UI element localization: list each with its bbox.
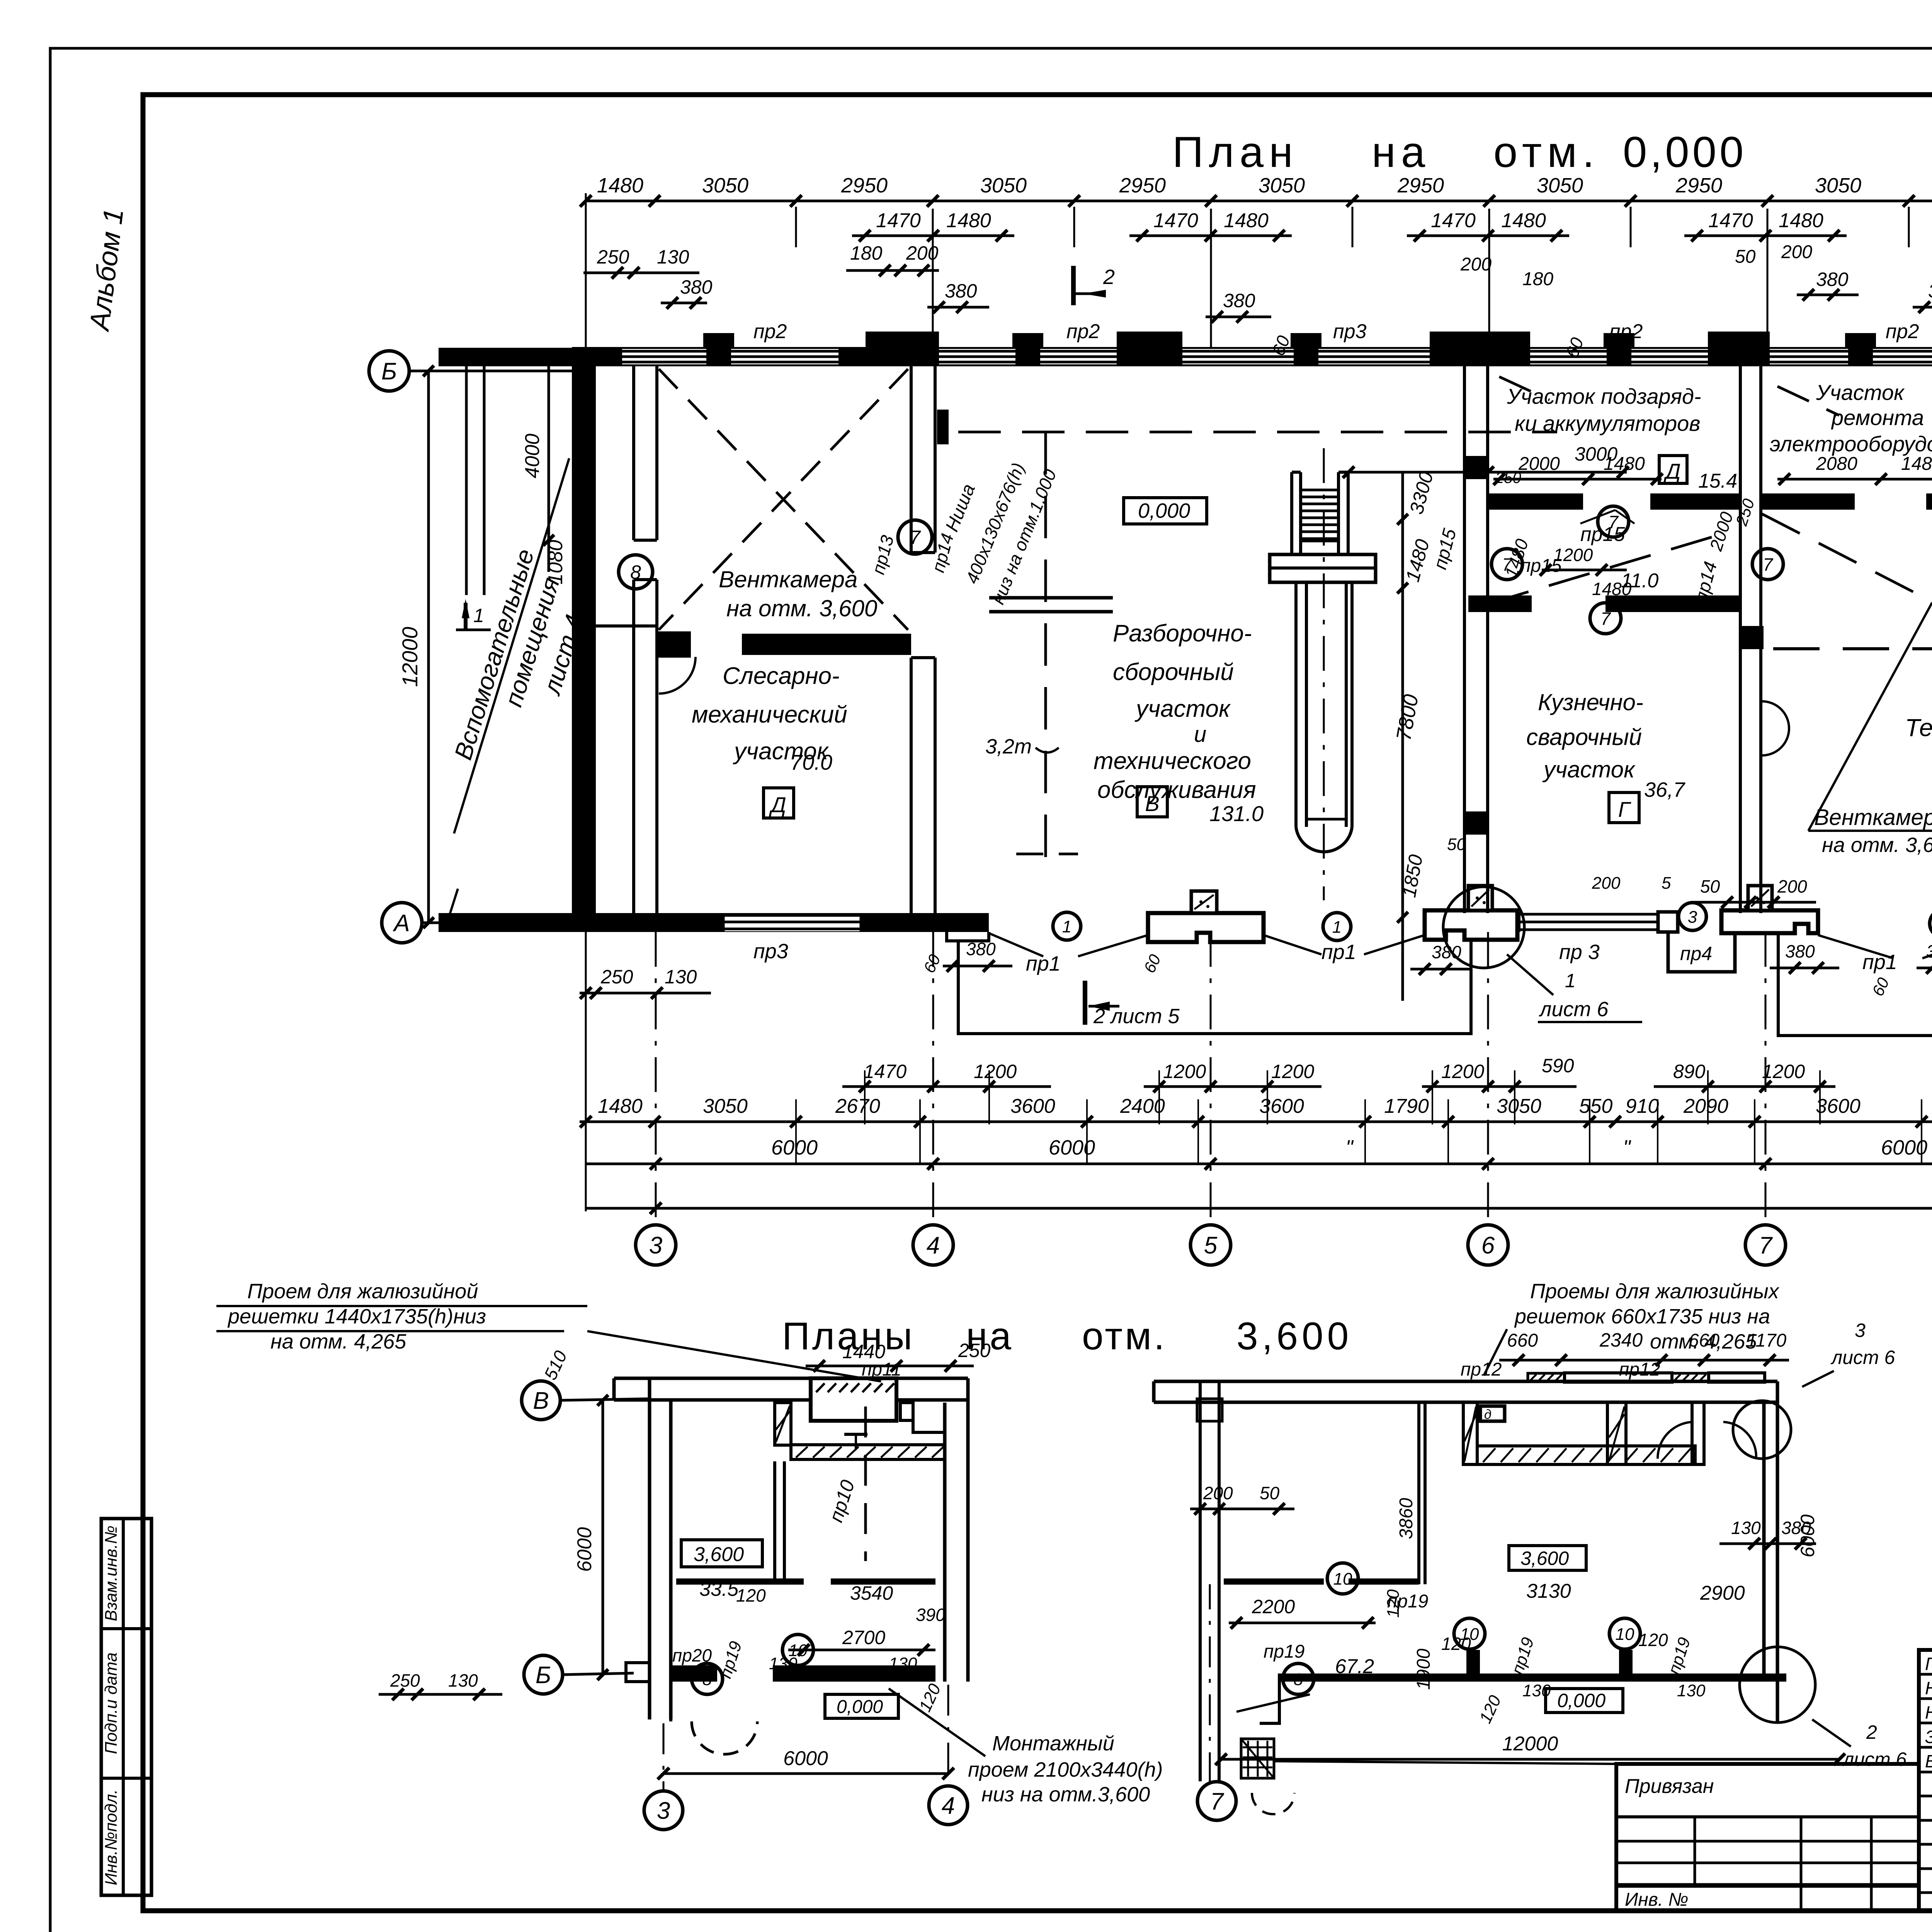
- svg-text:на отм. 3,600: на отм. 3,600: [1822, 833, 1932, 857]
- svg-text:2200: 2200: [1252, 1596, 1295, 1617]
- svg-text:130: 130: [657, 246, 689, 268]
- svg-text:1900: 1900: [1413, 1648, 1434, 1690]
- svg-text:70.0: 70.0: [790, 750, 832, 774]
- svg-text:2080: 2080: [1816, 454, 1857, 474]
- svg-text:лист 6: лист 6: [1539, 998, 1609, 1021]
- svg-text:1470: 1470: [1153, 209, 1198, 232]
- svg-text:10: 10: [1460, 1625, 1479, 1644]
- svg-text:3050: 3050: [1497, 1095, 1541, 1117]
- dashed diagonals top rooms: [1499, 377, 1932, 487]
- section mark 2 top: [1073, 265, 1115, 305]
- svg-text:7: 7: [1600, 609, 1611, 629]
- top wall pilasters: [866, 332, 1932, 348]
- svg-text:Привязан: Привязан: [1625, 1775, 1714, 1798]
- svg-text:250: 250: [958, 1340, 991, 1361]
- svg-text:1170: 1170: [1747, 1330, 1787, 1351]
- svg-text:7: 7: [1763, 554, 1773, 575]
- plan2 middle wall: [1224, 1401, 1425, 1585]
- svg-text:1470: 1470: [1708, 209, 1753, 232]
- svg-text:1480: 1480: [1604, 454, 1645, 474]
- svg-text:3540: 3540: [850, 1582, 893, 1604]
- svg-text:36,7: 36,7: [1644, 778, 1685, 801]
- svg-text:380: 380: [680, 276, 713, 298]
- svg-text:3050: 3050: [1259, 174, 1305, 197]
- plan2 bottom dim 12000: [1215, 1733, 1845, 1765]
- svg-text:67.2: 67.2: [1335, 1655, 1374, 1678]
- svg-text:180: 180: [1522, 269, 1553, 289]
- svg-text:2700: 2700: [842, 1627, 885, 1648]
- left dims 4000 1080: [521, 366, 567, 585]
- svg-text:3,2т: 3,2т: [985, 735, 1032, 758]
- svg-text:лист 6: лист 6: [1830, 1347, 1895, 1368]
- svg-text:910: 910: [1626, 1095, 1659, 1117]
- svg-text:200: 200: [1460, 254, 1492, 275]
- svg-text:0,000: 0,000: [1623, 128, 1747, 176]
- svg-text:пр2: пр2: [1886, 320, 1919, 343]
- svg-text:6000: 6000: [1881, 1136, 1927, 1159]
- svg-text:1: 1: [1332, 918, 1342, 937]
- svg-text:131.0: 131.0: [1209, 801, 1264, 826]
- grid bubble 7 interior left: [898, 520, 932, 554]
- montage opening note: [889, 1689, 1163, 1806]
- svg-text:1: 1: [1565, 970, 1576, 992]
- svg-text:Б: Б: [536, 1662, 551, 1689]
- svg-text:3,600: 3,600: [1520, 1548, 1569, 1569]
- svg-text:пр11: пр11: [862, 1359, 901, 1380]
- svg-text:Слесарно-: Слесарно-: [723, 663, 840, 689]
- svg-text:Участок подзаряд-: Участок подзаряд-: [1507, 384, 1701, 408]
- svg-text:380: 380: [1816, 269, 1849, 290]
- svg-text:50: 50: [1735, 247, 1756, 267]
- label слесарно room: [692, 663, 847, 774]
- svg-text:3: 3: [1855, 1320, 1866, 1341]
- svg-text:1470: 1470: [876, 209, 921, 232]
- label кузнечно category: [1609, 793, 1639, 823]
- svg-text:Монтажный: Монтажный: [992, 1732, 1114, 1755]
- label 0.000 box: [1124, 498, 1207, 524]
- svg-text:2400: 2400: [1120, 1095, 1165, 1117]
- svg-text:8: 8: [702, 1670, 712, 1689]
- opening labels пр15 пр14: [868, 510, 1932, 604]
- svg-text:2000: 2000: [1518, 454, 1560, 474]
- svg-text:Нач.отд.: Нач.отд.: [1925, 1678, 1932, 1698]
- plan2 top wall: [1154, 1381, 1777, 1406]
- gate porch axis7: [1721, 886, 1818, 933]
- svg-text:3: 3: [657, 1798, 670, 1824]
- svg-text:3600: 3600: [1010, 1095, 1055, 1117]
- svg-text:пр3: пр3: [1333, 320, 1367, 343]
- svg-text:2090: 2090: [1683, 1095, 1728, 1117]
- svg-text:130: 130: [889, 1654, 917, 1673]
- svg-text:660: 660: [1507, 1330, 1538, 1351]
- svg-text:4: 4: [942, 1793, 955, 1819]
- svg-text:отм.: отм.: [1493, 128, 1600, 176]
- plan1 room label: [681, 1540, 762, 1600]
- plan2 hatched partition: [1463, 1402, 1756, 1464]
- svg-text:3050: 3050: [980, 174, 1027, 197]
- dim 3000 above pit: [1343, 443, 1629, 478]
- svg-text:0,000: 0,000: [1138, 499, 1190, 522]
- bottom exterior wall: [586, 913, 989, 932]
- plan2 пр12 window blocks: [1528, 1373, 1765, 1382]
- svg-text:на отм. 4,265: на отм. 4,265: [270, 1330, 406, 1353]
- svg-text:Подп.и дата: Подп.и дата: [102, 1652, 121, 1754]
- venting room cross: [659, 369, 908, 630]
- svg-text:3,600: 3,600: [694, 1543, 744, 1566]
- plan1 left wall: [626, 1378, 671, 1719]
- bottom wall notch left end: [947, 932, 989, 941]
- svg-text:отм.: отм.: [1082, 1315, 1167, 1358]
- plan2 top dims: [1461, 1329, 1789, 1380]
- svg-text:0,000: 0,000: [1557, 1690, 1605, 1711]
- svg-text:пр2: пр2: [1066, 320, 1100, 343]
- louver note right: [1484, 1280, 1780, 1376]
- svg-text:10: 10: [1616, 1625, 1634, 1644]
- svg-text:Зав.гр.: Зав.гр.: [1925, 1727, 1932, 1747]
- gate small dims 380: [920, 939, 1932, 999]
- annex walls (to sheet 4): [439, 348, 586, 932]
- svg-text:3050: 3050: [702, 174, 748, 197]
- svg-text:120: 120: [736, 1585, 766, 1605]
- svg-text:пр 3: пр 3: [1559, 940, 1600, 964]
- svg-text:3050: 3050: [1537, 174, 1583, 197]
- svg-text:": ": [1623, 1136, 1631, 1159]
- plan1 пр11 window block: [811, 1378, 896, 1457]
- svg-text:3: 3: [649, 1232, 662, 1259]
- svg-text:200: 200: [1777, 876, 1807, 896]
- svg-text:пр19: пр19: [1264, 1641, 1305, 1662]
- svg-text:3600: 3600: [1816, 1095, 1861, 1117]
- pit vertical dim chain: [1392, 469, 1466, 1001]
- svg-text:380: 380: [945, 280, 977, 302]
- svg-text:Проем для жалюзийной: Проем для жалюзийной: [247, 1280, 478, 1303]
- svg-text:пр2: пр2: [1609, 320, 1643, 343]
- svg-text:120: 120: [1384, 1589, 1403, 1618]
- plan2 left wall: [1197, 1380, 1222, 1781]
- workbench bars: [989, 598, 1113, 612]
- svg-text:1200: 1200: [1271, 1061, 1314, 1082]
- svg-text:2950: 2950: [1119, 174, 1166, 197]
- grid bubble А left: [382, 903, 586, 943]
- section mark 2 лист5: [1085, 981, 1180, 1028]
- gate porch axis6: [1425, 886, 1517, 940]
- svg-text:электрооборудования: электрооборудования: [1770, 432, 1932, 456]
- svg-text:380: 380: [1926, 941, 1932, 961]
- svg-text:390: 390: [916, 1605, 946, 1625]
- svg-text:пр3: пр3: [753, 940, 788, 963]
- svg-text:участок: участок: [1134, 696, 1231, 722]
- lower plans title: [782, 1315, 1352, 1358]
- svg-text:6000: 6000: [1049, 1136, 1095, 1159]
- partition подзарядки room: [1488, 493, 1740, 510]
- svg-text:380: 380: [1928, 280, 1932, 302]
- svg-text:1480: 1480: [1501, 209, 1546, 232]
- svg-text:250: 250: [1495, 469, 1521, 486]
- svg-text:8: 8: [630, 561, 641, 583]
- svg-text:В: В: [533, 1388, 549, 1414]
- plan2 bottom bubbles: [1197, 1584, 1236, 1820]
- plan2 bottom left stairs: [1241, 1739, 1294, 1814]
- svg-text:3050: 3050: [1815, 174, 1861, 197]
- svg-text:6000: 6000: [1797, 1514, 1818, 1557]
- top small dims axis5: [1206, 290, 1294, 358]
- svg-text:1200: 1200: [1441, 1061, 1484, 1082]
- svg-text:2950: 2950: [841, 174, 888, 197]
- svg-text:на отм. 3,600: на отм. 3,600: [726, 595, 877, 621]
- plan1 hatched partition: [775, 1403, 945, 1459]
- svg-text:1480: 1480: [1901, 454, 1932, 474]
- svg-text:130: 130: [665, 966, 697, 988]
- svg-text:Инв.№подл.: Инв.№подл.: [102, 1789, 121, 1886]
- room areas top: [1621, 470, 1932, 592]
- louver note left: [216, 1280, 881, 1381]
- svg-text:Венткамера: Венткамера: [719, 566, 857, 592]
- svg-text:низ на отм.3,600: низ на отм.3,600: [981, 1783, 1150, 1806]
- plan2 right wall: [1764, 1402, 1777, 1723]
- svg-text:1200: 1200: [1163, 1061, 1206, 1082]
- plan2 2 лист6 mark: [1812, 1719, 1907, 1770]
- svg-text:12000: 12000: [398, 627, 422, 687]
- svg-text:А: А: [392, 910, 410, 937]
- svg-text:д: д: [1484, 1407, 1492, 1422]
- main plan title: [1172, 128, 1747, 176]
- svg-text:1480: 1480: [1779, 209, 1823, 232]
- bottom extension lines: [586, 932, 1932, 1211]
- svg-text:пр1: пр1: [1321, 940, 1356, 964]
- top dimension chain row 2: [852, 202, 1932, 241]
- svg-text:50: 50: [1260, 1483, 1280, 1503]
- left bottom dims 250 130: [580, 966, 711, 999]
- svg-text:7: 7: [910, 527, 921, 548]
- svg-text:Проемы для жалюзийных: Проемы для жалюзийных: [1530, 1280, 1780, 1303]
- plan2 3 лист6 mark: [1802, 1320, 1895, 1387]
- top dimension chain row 1: [580, 174, 1932, 207]
- top small dims axis6: [1460, 254, 1587, 360]
- label кузнечно room: [1526, 689, 1685, 801]
- svg-text:2950: 2950: [1397, 174, 1444, 197]
- label подзарядки room: [1507, 384, 1701, 435]
- svg-text:250: 250: [600, 966, 633, 988]
- svg-text:5: 5: [1662, 874, 1671, 893]
- top small dims axis4: [846, 242, 989, 368]
- svg-text:2: 2: [1866, 1721, 1877, 1743]
- svg-text:1480: 1480: [1592, 579, 1632, 599]
- svg-text:7: 7: [1608, 512, 1619, 532]
- svg-text:Участок: Участок: [1816, 380, 1905, 405]
- labels below bottom wall: [753, 940, 1932, 975]
- svg-text:пр12: пр12: [1461, 1359, 1502, 1380]
- plan1 bubbles 10 8: [692, 1634, 813, 1694]
- svg-text:Н.контр.: Н.контр.: [1925, 1702, 1932, 1723]
- svg-text:130: 130: [1677, 1681, 1706, 1700]
- room category boxes top: [1659, 452, 1932, 485]
- apron outline left: [958, 940, 1471, 1034]
- room interior dims top: [1493, 385, 1932, 599]
- svg-text:1480: 1480: [598, 1095, 643, 1117]
- svg-text:890: 890: [1673, 1061, 1706, 1082]
- svg-text:15.4: 15.4: [1698, 470, 1737, 492]
- svg-text:2 лист 5: 2 лист 5: [1093, 1005, 1180, 1028]
- grid bubble 8 interior: [619, 555, 653, 589]
- svg-text:2670: 2670: [835, 1095, 880, 1117]
- svg-text:8: 8: [1294, 1670, 1303, 1689]
- partition пр15 11.0: [1468, 595, 1740, 612]
- svg-text:решеток 660х1735 низ на: решеток 660х1735 низ на: [1514, 1305, 1770, 1328]
- svg-text:1480: 1480: [946, 209, 991, 232]
- svg-text:1790: 1790: [1384, 1095, 1429, 1117]
- plan2 detail circle right: [1733, 1401, 1815, 1723]
- partition слесарный room: [596, 626, 911, 658]
- privyazan table: [1616, 1764, 1919, 1911]
- label венткамера left: [719, 566, 877, 621]
- plan1 пр11 dims: [806, 1340, 991, 1380]
- partition ремонта-тепловой: [1761, 366, 1932, 510]
- svg-text:технического: технического: [1094, 748, 1251, 774]
- plan1 bottom door arc: [671, 1682, 757, 1754]
- svg-text:2: 2: [1103, 265, 1115, 289]
- top chain extension lines: [586, 193, 1932, 347]
- plan1 top wall: [614, 1378, 968, 1403]
- plan1 right wall: [945, 1403, 968, 1682]
- plan2 dims: [1190, 1483, 1818, 1726]
- plan2 room labels: [1335, 1546, 1745, 1713]
- album label: [84, 207, 129, 333]
- bottom dim row D 36000: [586, 1180, 1932, 1214]
- bottom wall пр3 window right: [1519, 912, 1678, 932]
- plan1 left vdim 6000: [379, 1347, 608, 1700]
- plan1 dims inside: [672, 1582, 946, 1681]
- svg-text:1: 1: [1062, 917, 1071, 936]
- left margin stamp strip: [101, 1519, 151, 1895]
- niche label: [942, 460, 1060, 607]
- lintel bubbles bottom: [1053, 903, 1932, 940]
- bottom dim row B: [580, 1095, 1932, 1128]
- label теплая стоянка: [1905, 714, 1932, 768]
- svg-text:10: 10: [789, 1641, 808, 1660]
- top small dims axis7: [1732, 242, 1859, 368]
- svg-text:3130: 3130: [1526, 1580, 1571, 1602]
- label 3.2т hoist: [985, 735, 1059, 758]
- svg-text:Кузнечно-: Кузнечно-: [1538, 689, 1643, 715]
- plan1 0.000 box: [825, 1681, 945, 1718]
- svg-text:200: 200: [1592, 874, 1621, 893]
- svg-text:пр2: пр2: [753, 320, 787, 343]
- top wall windows пр2 пр3: [622, 349, 1932, 364]
- svg-text:180: 180: [850, 242, 883, 264]
- grid bubble Б left: [369, 351, 586, 391]
- svg-text:380: 380: [966, 939, 996, 959]
- svg-text:200: 200: [1203, 1483, 1233, 1503]
- dims near axis7 bottom: [1592, 874, 1816, 908]
- svg-text:380: 380: [1785, 941, 1815, 961]
- bottom dim row A: [842, 1055, 1932, 1092]
- svg-text:380: 380: [1223, 290, 1255, 311]
- svg-text:Б: Б: [381, 358, 397, 385]
- svg-text:1200: 1200: [1762, 1061, 1805, 1082]
- label разборочный category: [1137, 787, 1167, 817]
- svg-text:250: 250: [597, 246, 629, 268]
- svg-text:10: 10: [1333, 1570, 1352, 1588]
- svg-text:3: 3: [1688, 908, 1697, 927]
- label слесарно category: [764, 788, 794, 818]
- svg-text:130: 130: [448, 1670, 478, 1690]
- svg-text:130: 130: [1522, 1681, 1551, 1700]
- left exterior wall: [572, 347, 596, 932]
- svg-text:2900: 2900: [1700, 1582, 1745, 1604]
- bottom wall window пр3 left: [723, 913, 861, 932]
- window labels top: [753, 320, 1919, 343]
- svg-text:Г: Г: [1618, 797, 1631, 821]
- bottom grid bubbles: [636, 932, 1932, 1265]
- gate leader lines: [989, 933, 1932, 958]
- svg-text:2340: 2340: [1599, 1329, 1643, 1351]
- svg-text:участок: участок: [1542, 757, 1636, 782]
- bottom dim row C 6000: [586, 1136, 1932, 1170]
- svg-text:250: 250: [390, 1670, 420, 1690]
- plan1 interior walls: [671, 1461, 935, 1682]
- svg-text:7: 7: [1502, 554, 1512, 575]
- svg-text:Д: Д: [769, 793, 786, 817]
- svg-text:механический: механический: [692, 701, 847, 728]
- svg-text:6: 6: [1481, 1232, 1495, 1259]
- svg-text:проем 2100х3440(h): проем 2100х3440(h): [968, 1758, 1163, 1781]
- svg-text:3050: 3050: [703, 1095, 748, 1117]
- svg-text:5: 5: [1204, 1232, 1218, 1259]
- svg-text:сборочный: сборочный: [1113, 659, 1234, 685]
- svg-text:2950: 2950: [1675, 174, 1722, 197]
- svg-text:120: 120: [1638, 1630, 1668, 1650]
- svg-text:Д: Д: [1663, 459, 1680, 483]
- annex diagonal label: [449, 458, 588, 833]
- svg-text:12000: 12000: [1502, 1733, 1558, 1755]
- top wall mid piers: [703, 333, 1932, 364]
- svg-text:1: 1: [473, 605, 484, 626]
- svg-text:7: 7: [1210, 1788, 1225, 1815]
- svg-text:пр4: пр4: [1680, 943, 1712, 964]
- label ремонта room: [1770, 380, 1932, 456]
- svg-text:сварочный: сварочный: [1526, 724, 1642, 750]
- svg-text:550: 550: [1579, 1095, 1613, 1117]
- label венткамера right: [1808, 603, 1932, 857]
- annex interior wall: [466, 366, 484, 595]
- monorail dashed line: [958, 432, 1557, 857]
- svg-text:6000: 6000: [573, 1527, 596, 1572]
- inspection pit: [1270, 448, 1376, 900]
- door arc слесарный: [659, 657, 696, 694]
- svg-text:ки аккумуляторов: ки аккумуляторов: [1515, 411, 1700, 435]
- section mark 1 left: [456, 599, 491, 630]
- plan2 bubbles: [1236, 1563, 1640, 1712]
- svg-text:пр15: пр15: [1520, 556, 1562, 576]
- svg-text:обслуживания: обслуживания: [1097, 777, 1256, 803]
- garage dashed lines: [1492, 514, 1932, 649]
- left vertical dim 12000: [398, 366, 434, 928]
- top small dims axis8: [1913, 254, 1932, 313]
- svg-text:1200: 1200: [974, 1061, 1017, 1082]
- svg-text:4000: 4000: [521, 434, 544, 478]
- lintel bubbles пр15 row: [1492, 505, 1932, 634]
- plan1 left bubbles: [522, 1381, 650, 1694]
- interior wall axis 4: [911, 366, 949, 913]
- svg-text:Инв. №: Инв. №: [1625, 1889, 1688, 1910]
- пр4 entry porch: [1668, 932, 1735, 972]
- 12000 dim near title block: [1275, 1761, 1616, 1764]
- svg-text:200: 200: [1781, 242, 1812, 262]
- title block frame: [1919, 1650, 1932, 1911]
- svg-text:План: План: [1172, 128, 1298, 176]
- svg-text:130: 130: [1731, 1518, 1761, 1538]
- svg-text:В: В: [1145, 791, 1159, 816]
